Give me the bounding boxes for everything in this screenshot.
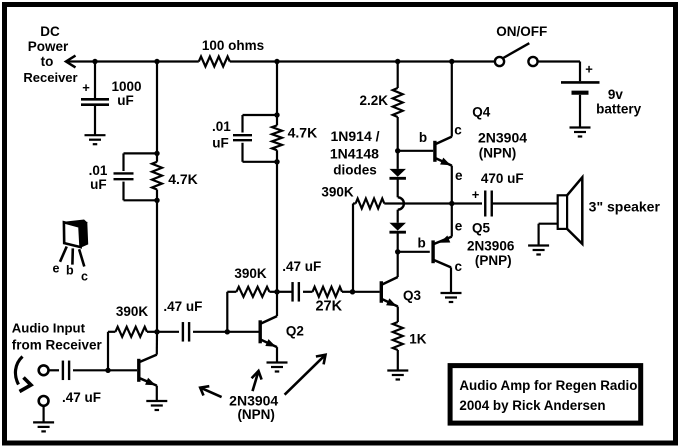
- svg-text:100 ohms: 100 ohms: [202, 38, 264, 53]
- svg-text:.47 uF: .47 uF: [282, 259, 321, 274]
- svg-text:2N3904: 2N3904: [478, 130, 527, 146]
- svg-text:Q5: Q5: [472, 221, 491, 236]
- svg-text:Power: Power: [28, 39, 69, 54]
- svg-text:ON/OFF: ON/OFF: [496, 24, 547, 39]
- svg-text:b: b: [419, 130, 427, 145]
- svg-text:b: b: [417, 236, 425, 251]
- svg-text:to: to: [41, 54, 54, 69]
- svg-text:390K: 390K: [116, 304, 149, 319]
- svg-text:diodes: diodes: [333, 163, 377, 178]
- svg-text:4.7K: 4.7K: [168, 171, 198, 187]
- svg-text:2N3906: 2N3906: [467, 239, 515, 254]
- svg-text:uF: uF: [212, 136, 229, 151]
- svg-text:4.7K: 4.7K: [288, 125, 318, 141]
- svg-text:battery: battery: [596, 102, 642, 117]
- svg-text:uF: uF: [90, 177, 107, 192]
- svg-text:470 uF: 470 uF: [481, 171, 524, 186]
- svg-text:Q2: Q2: [286, 324, 304, 339]
- svg-text:3" speaker: 3" speaker: [589, 199, 661, 215]
- svg-text:+: +: [585, 62, 593, 77]
- svg-text:390K: 390K: [321, 185, 354, 200]
- svg-text:(NPN): (NPN): [479, 146, 517, 161]
- svg-text:e: e: [455, 168, 463, 183]
- svg-text:(NPN): (NPN): [237, 407, 275, 422]
- svg-text:9v: 9v: [608, 87, 624, 102]
- svg-text:27K: 27K: [315, 299, 342, 315]
- svg-text:390K: 390K: [234, 266, 267, 281]
- svg-text:.47 uF: .47 uF: [163, 299, 202, 314]
- svg-text:1000: 1000: [111, 79, 141, 94]
- svg-text:.47 uF: .47 uF: [62, 390, 101, 405]
- svg-text:Audio Amp for Regen Radio: Audio Amp for Regen Radio: [459, 378, 637, 393]
- svg-text:Q3: Q3: [403, 288, 422, 303]
- svg-text:.01: .01: [212, 119, 231, 134]
- svg-text:c: c: [81, 270, 88, 284]
- svg-text:1K: 1K: [409, 332, 427, 347]
- svg-text:e: e: [53, 262, 60, 276]
- svg-text:b: b: [66, 263, 74, 277]
- svg-text:(PNP): (PNP): [475, 253, 512, 268]
- svg-text:c: c: [454, 123, 462, 138]
- svg-text:2.2K: 2.2K: [360, 93, 389, 108]
- svg-text:1N914 /: 1N914 /: [330, 128, 379, 144]
- svg-text:.01: .01: [89, 163, 108, 178]
- svg-text:e: e: [455, 219, 463, 234]
- svg-text:Audio Input: Audio Input: [12, 320, 86, 335]
- svg-text:c: c: [454, 259, 462, 274]
- svg-text:DC: DC: [40, 24, 60, 39]
- svg-text:1N4148: 1N4148: [330, 146, 379, 162]
- svg-text:+: +: [82, 80, 90, 95]
- svg-text:Q4: Q4: [472, 105, 491, 120]
- svg-text:+: +: [472, 187, 480, 202]
- svg-text:2004 by Rick Andersen: 2004 by Rick Andersen: [459, 398, 605, 413]
- svg-text:from Receiver: from Receiver: [12, 338, 103, 353]
- svg-text:Receiver: Receiver: [23, 70, 77, 85]
- svg-text:uF: uF: [117, 93, 134, 108]
